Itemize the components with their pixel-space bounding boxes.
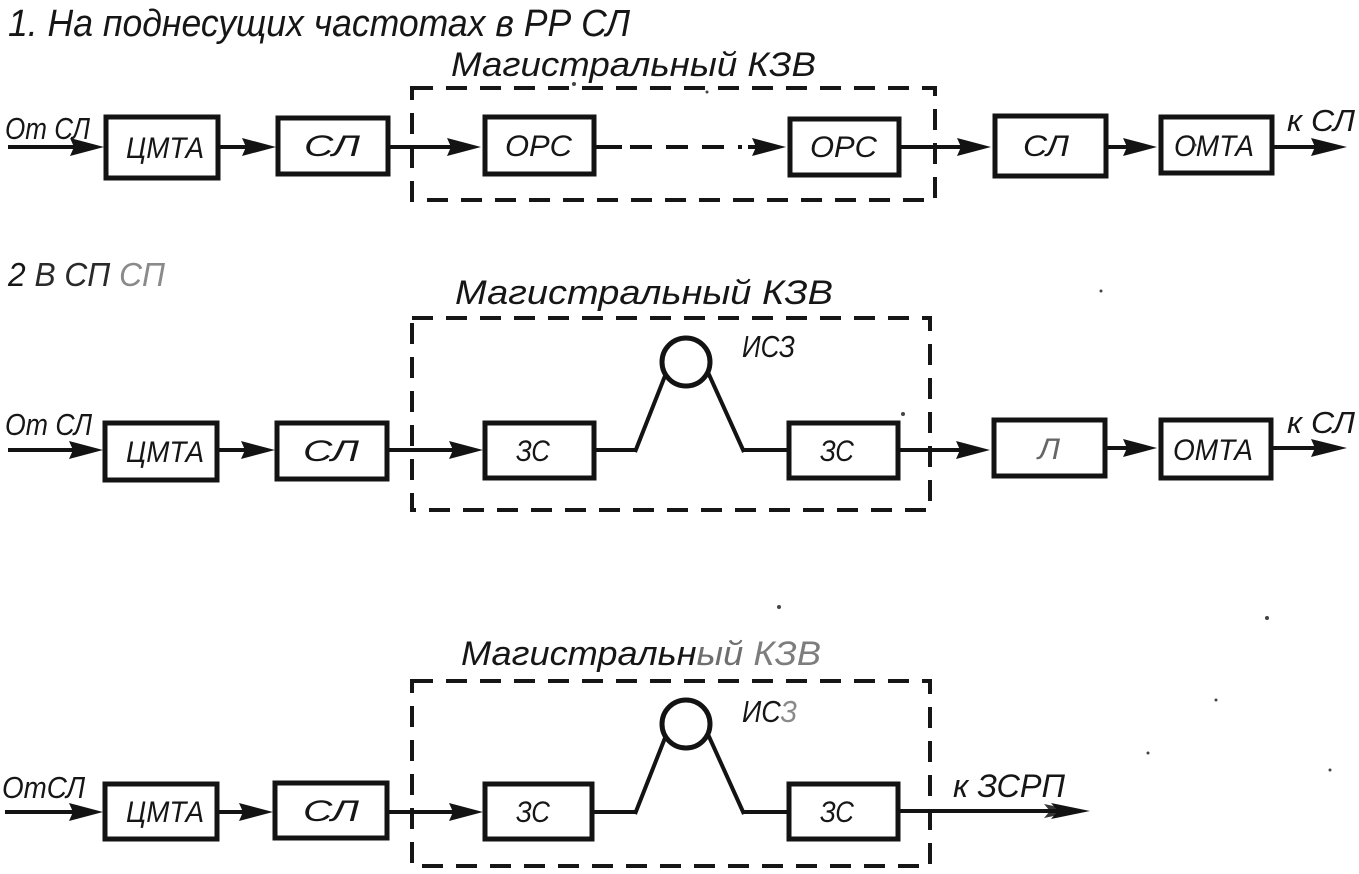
wire ЦМТА to СЛ row 1 <box>220 145 252 149</box>
block ОРС (right) row 1 <box>790 119 899 175</box>
arrowhead into ЦМТА row 1 <box>70 138 104 156</box>
wire СЛ to ОМТА row 1 <box>1108 145 1133 149</box>
block ЗС (left) row 3 <box>485 784 592 839</box>
arrowhead into ОРС row 1 <box>447 138 481 156</box>
dashed box Магистральный КЗВ row 2 <box>412 318 930 510</box>
svg-text:к СЛ: к СЛ <box>1287 103 1356 138</box>
wire downlink to ЗС row 3 <box>742 810 787 814</box>
arrowhead output row 2 <box>1311 439 1347 457</box>
wire СЛ to ОРС row 1 <box>390 145 456 149</box>
wire downlink slant row 3 <box>697 710 744 814</box>
satellite circle ИСЗ row 3 <box>662 700 710 748</box>
wire stub from ОРС left row 1 <box>596 145 622 149</box>
block ОМТА row 2 <box>1161 420 1271 478</box>
arrowhead into Л row 2 <box>956 441 990 459</box>
svg-text:Магистральный КЗВ: Магистральный КЗВ <box>461 635 821 673</box>
svg-text:ЗС: ЗС <box>516 796 550 829</box>
wire ЦМТА to СЛ row 2 <box>219 448 251 452</box>
svg-text:ИСЗ: ИСЗ <box>742 694 797 729</box>
arrowhead into ЗС row 3 <box>449 803 483 821</box>
arrowhead into СЛ row 1 <box>242 138 276 156</box>
satellite circle ИСЗ row 2 <box>662 338 710 386</box>
wire input row 2 <box>8 448 83 452</box>
svg-text:2 В СП СП: 2 В СП СП <box>7 256 165 293</box>
wire ЗС to Л row 2 <box>900 448 966 452</box>
wire output row 2 <box>1273 446 1320 450</box>
wire ОРС to СЛ row 1 <box>901 145 966 149</box>
arrowhead into ОМТА row 1 <box>1123 138 1157 156</box>
block ОРС (left) row 1 <box>485 117 594 174</box>
svg-text:к ЗСРП: к ЗСРП <box>953 768 1066 804</box>
arrowhead output row 3 <box>1051 803 1090 819</box>
wire Л to ОМТА row 2 <box>1107 446 1133 450</box>
wire input row 1 <box>8 145 84 149</box>
svg-text:СЛ: СЛ <box>303 795 360 828</box>
wire СЛ to ЗС row 3 <box>389 810 458 814</box>
arrowhead into СЛ row 2 <box>241 441 275 459</box>
block ЦМТА row 2 <box>105 423 217 480</box>
wire ЦМТА to СЛ row 3 <box>217 810 249 814</box>
dashed box Магистральный КЗВ row 1 <box>412 88 935 200</box>
svg-text:ЗС: ЗС <box>820 435 854 468</box>
wire uplink slant row 2 <box>635 348 676 452</box>
block ЗС (left) row 2 <box>485 423 594 478</box>
wire СЛ to ЗС row 2 <box>389 448 458 452</box>
svg-text:ОтСЛ: ОтСЛ <box>2 770 86 805</box>
block СЛ (right) row 1 <box>995 116 1106 176</box>
svg-text:ОМТА: ОМТА <box>1174 130 1254 163</box>
arrowhead into ЦМТА row 3 <box>69 803 103 821</box>
svg-text:Магистральный КЗВ: Магистральный КЗВ <box>451 46 816 84</box>
block СЛ row 3 <box>275 783 387 838</box>
svg-text:ЗС: ЗС <box>820 796 854 829</box>
svg-text:ИСЗ: ИСЗ <box>742 329 795 364</box>
wire ЗС to uplink row 3 <box>594 810 637 814</box>
wire input row 3 <box>5 810 83 814</box>
svg-text:СЛ: СЛ <box>303 435 360 468</box>
block ЦМТА row 3 <box>105 784 217 839</box>
dashed box Магистральный КЗВ row 3 <box>412 681 930 866</box>
block СЛ row 2 <box>277 423 387 479</box>
svg-text:ЦМТА: ЦМТА <box>126 436 204 469</box>
svg-text:1. На поднесущих частотах в РР: 1. На поднесущих частотах в РР СЛ <box>8 3 631 45</box>
arrowhead into СЛ row 3 <box>239 803 273 821</box>
svg-text:ОРС: ОРС <box>810 131 877 164</box>
block ЗС (right) row 3 <box>789 784 898 839</box>
svg-text:Л: Л <box>1036 433 1061 466</box>
wire output row 1 <box>1274 145 1320 149</box>
arrowhead output row 1 <box>1311 138 1347 156</box>
svg-text:СЛ: СЛ <box>304 130 361 163</box>
block Л row 2 <box>994 420 1105 476</box>
svg-text:ОМТА: ОМТА <box>1173 434 1253 467</box>
svg-text:ОРС: ОРС <box>505 130 572 163</box>
svg-text:Магистральный КЗВ: Магистральный КЗВ <box>455 274 833 312</box>
scan specks <box>572 82 1332 772</box>
svg-text:ЦМТА: ЦМТА <box>126 796 204 829</box>
svg-text:ЗС: ЗС <box>516 435 550 468</box>
block ЗС (right) row 2 <box>789 423 898 478</box>
dashed wire between ОРС blocks row 1 <box>630 145 742 149</box>
wire into right ОРС row 1 <box>748 145 762 149</box>
arrowhead into right ОРС row 1 <box>752 138 786 156</box>
arrowhead into ЗС row 2 <box>449 441 483 459</box>
block ОМТА row 1 <box>1161 117 1272 173</box>
svg-text:От СЛ: От СЛ <box>5 407 93 442</box>
arrowhead into ОМТА row 2 <box>1123 439 1157 457</box>
wire uplink slant row 3 <box>635 710 676 814</box>
svg-text:СЛ: СЛ <box>1023 130 1069 163</box>
block ЦМТА row 1 <box>106 117 218 178</box>
svg-text:ЦМТА: ЦМТА <box>126 132 204 165</box>
wire downlink slant row 2 <box>697 348 744 452</box>
wire ЗС to uplink row 2 <box>596 448 637 452</box>
wire output row 3 to ЗСРП <box>900 809 1066 813</box>
arrowhead into ЦМТА row 2 <box>69 441 103 459</box>
block СЛ row 1 <box>278 118 388 174</box>
arrowhead into СЛ (right) row 1 <box>957 138 991 156</box>
wire downlink to ЗС row 2 <box>742 448 787 452</box>
svg-text:к СЛ: к СЛ <box>1287 405 1356 440</box>
